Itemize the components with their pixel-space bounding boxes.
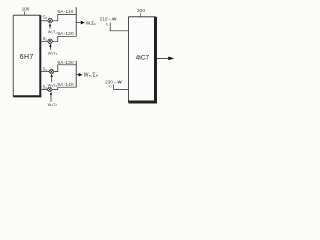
wire r2 input [114, 84, 129, 89]
multiplier M4 [48, 87, 52, 91]
svg-text:W₁T₁: W₁T₁ [48, 29, 58, 34]
svg-text:S₄: S₄ [43, 85, 48, 90]
block 100 transmitter box [13, 15, 41, 96]
svg-text:9A-130: 9A-130 [57, 60, 74, 65]
svg-text:230→₩: 230→₩ [105, 80, 122, 85]
svg-text:W₃T₃: W₃T₃ [48, 83, 58, 88]
svg-text:Wₙ,Σₙ: Wₙ,Σₙ [84, 73, 98, 79]
output arrow of box 200 [157, 57, 174, 61]
multiplier M3 [49, 69, 53, 73]
wire M2 to rail 2 [52, 36, 76, 41]
weight W3 arrow [51, 74, 53, 82]
output arrow WN sum [76, 73, 98, 79]
svg-text:100: 100 [22, 7, 30, 12]
svg-text:6H7: 6H7 [20, 54, 34, 61]
svg-text:WₙTₙ: WₙTₙ [48, 102, 58, 107]
svg-text:9A-120: 9A-120 [57, 31, 74, 36]
svg-text:S₂: S₂ [43, 36, 48, 41]
multiplier M1 [48, 19, 52, 23]
output arrow W1 sum [76, 20, 96, 26]
label 200 [137, 8, 145, 17]
svg-text:W₂T₂: W₂T₂ [48, 50, 58, 55]
svg-text:4tC7: 4tC7 [136, 55, 150, 62]
wire S3 [41, 71, 49, 73]
wire r1 input [110, 23, 128, 31]
summing bus 2 [75, 61, 77, 87]
wire M3 to rail 3 [54, 65, 76, 72]
svg-text:r₂: r₂ [109, 83, 112, 88]
svg-text:W,Σ₁: W,Σ₁ [86, 20, 97, 26]
wire S1 [41, 20, 48, 22]
weight W1 arrow [49, 23, 51, 29]
svg-text:9A-140: 9A-140 [57, 82, 74, 87]
multiplier M2 [48, 39, 52, 43]
label 100 [22, 7, 30, 16]
summing bus 1 [75, 7, 77, 36]
svg-text:210→₩: 210→₩ [100, 16, 117, 21]
block 200 receiver box [128, 17, 157, 102]
wire S4 [41, 89, 47, 91]
wire M4 to rail 4 [52, 87, 76, 89]
wire S2 [41, 40, 48, 42]
svg-text:S₁: S₁ [43, 15, 48, 20]
svg-text:9A-110: 9A-110 [57, 9, 73, 14]
svg-text:S₃: S₃ [43, 66, 48, 71]
weight W2 arrow [49, 44, 51, 50]
wire M1 to rail 1 [52, 15, 76, 21]
weight WN arrow [50, 92, 52, 102]
